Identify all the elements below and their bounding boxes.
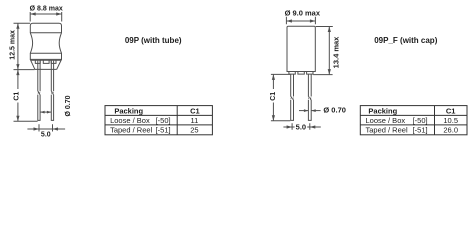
tube skirt diagonals [30, 59, 61, 69]
svg-text:09P_F (with cap): 09P_F (with cap) [374, 36, 437, 45]
C1 left text backing [13, 89, 20, 103]
dia 0.70 right fig right tail [311, 110, 320, 112]
dim line C1 left [17, 70, 19, 122]
dim text C1 left (rotated) [13, 92, 20, 101]
tab middle right fig [298, 72, 304, 75]
svg-text:Packing: Packing [368, 106, 397, 115]
svg-text:C1: C1 [13, 92, 20, 101]
label 09P_F (with cap) [374, 36, 437, 45]
svg-text:Packing: Packing [114, 106, 143, 115]
arrow C1 left bottom [16, 116, 19, 122]
extension tick top 12.5 [14, 22, 31, 24]
svg-text:5.0: 5.0 [41, 132, 51, 139]
svg-text:26.0: 26.0 [443, 125, 458, 134]
svg-text:C1: C1 [270, 92, 277, 101]
pin left right fig upper [291, 74, 294, 96]
dia 0.70 right fig left tail [299, 110, 308, 112]
dim text 5.0 left fig [41, 132, 51, 139]
dim line 12.5 max [17, 23, 19, 69]
pin right right fig upper [308, 74, 311, 96]
pin left right fig lower [291, 100, 294, 121]
dim line 5.0 right fig [283, 126, 320, 128]
arrow C1 right bottom [272, 115, 275, 121]
svg-text:11: 11 [191, 116, 199, 125]
arrow 5.0 right [53, 127, 59, 130]
label 09P (with tube) [125, 36, 182, 45]
dim text C1 right fig (rotated) [270, 92, 277, 101]
extension tick bottom C1 [14, 120, 38, 122]
extension tick top C1 right fig [271, 73, 290, 75]
pin right lower [51, 95, 53, 121]
svg-text:10.5: 10.5 [443, 116, 458, 125]
pin left upper [38, 61, 40, 92]
svg-text:Loose / Box: Loose / Box [366, 116, 406, 125]
svg-text:Ø 8.8 max: Ø 8.8 max [30, 6, 63, 13]
tab left [35, 60, 40, 63]
dim text 12.5 max (rotated) [9, 30, 16, 60]
svg-text:25: 25 [190, 125, 198, 134]
pin left right fig break [291, 97, 294, 100]
tab right [51, 60, 56, 63]
arrow 5.0 right fig right [310, 125, 316, 128]
table right borders [360, 106, 467, 135]
pin right upper [51, 61, 53, 92]
svg-text:[-51]: [-51] [156, 125, 171, 134]
arrow 13.4 bottom [328, 69, 331, 75]
arrow dia 8.8 left [30, 12, 36, 15]
arrow dia 8.8 right [56, 12, 62, 15]
dim text 5.0 right fig [296, 122, 306, 131]
coil body outline with tube [30, 23, 61, 59]
extension tick bottom 13.4 [313, 74, 332, 76]
arrow 12.5 bottom [16, 64, 19, 70]
pin right right fig lower [308, 100, 311, 121]
flange line bottom [30, 52, 61, 54]
skirt top line [31, 59, 62, 61]
table left borders [105, 106, 212, 135]
arrow 12.5 top [16, 23, 19, 29]
svg-text:Ø 9.0 max: Ø 9.0 max [285, 8, 321, 17]
svg-text:C1: C1 [190, 106, 200, 115]
C1 right text backing [270, 89, 277, 103]
arrow at right edge of right pin [311, 109, 315, 112]
svg-text:[-50]: [-50] [156, 116, 171, 125]
dim text dia 9.0 max [285, 8, 321, 17]
ticks 5.0 left fig [39, 124, 53, 131]
dim line 5.0 left fig [27, 128, 65, 130]
svg-text:[-51]: [-51] [413, 125, 428, 134]
cap body rectangle [287, 26, 315, 71]
svg-text:Taped / Reel: Taped / Reel [110, 125, 152, 134]
svg-text:C1: C1 [446, 106, 456, 115]
pin right break [51, 91, 53, 94]
dim line C1 right fig [272, 74, 274, 120]
svg-text:[-50]: [-50] [413, 116, 428, 125]
dim line dia 0.70 left fig [40, 111, 51, 113]
dim line dia 9.0 [286, 20, 315, 22]
5.0 right text backing [295, 124, 308, 131]
flange line top [30, 32, 61, 34]
arrow C1 left top [16, 70, 19, 76]
dim line 13.4 max [328, 27, 330, 75]
extension tick middle shared [14, 69, 35, 71]
tab middle [43, 60, 49, 63]
svg-text:Loose / Box: Loose / Box [110, 116, 150, 125]
dim text dia 0.70 left fig (rotated) [65, 95, 72, 116]
arrow at left edge of right pin [304, 109, 308, 112]
svg-text:Ø 0.70: Ø 0.70 [65, 95, 72, 116]
svg-text:Taped / Reel: Taped / Reel [366, 125, 408, 134]
svg-text:13.4 max: 13.4 max [332, 36, 341, 69]
arrow dia 9.0 left [286, 19, 292, 22]
arrow C1 right top [272, 74, 275, 80]
pin right right fig break [308, 97, 311, 100]
extension tick bottom C1 right fig [271, 120, 290, 122]
tab right right fig [307, 72, 313, 75]
skirt bottom line [35, 68, 57, 70]
svg-text:5.0: 5.0 [296, 122, 306, 131]
arrow 5.0 left [34, 127, 40, 130]
svg-text:12.5 max: 12.5 max [9, 30, 16, 60]
arrow 0.70 left [40, 111, 44, 114]
dim extension ticks dia 8.8 [30, 12, 62, 22]
ticks 5.0 right fig [292, 123, 310, 130]
tab left right fig [289, 72, 295, 75]
dim text dia 0.70 right fig [323, 106, 346, 115]
dim extension ticks dia 9.0 [286, 17, 315, 25]
dim text dia 8.8 max [30, 6, 63, 13]
pin left lower [38, 95, 40, 121]
svg-text:09P (with tube): 09P (with tube) [125, 36, 182, 45]
arrow 13.4 top [328, 27, 331, 33]
pin left break [38, 91, 40, 94]
arrow 5.0 right fig left [287, 125, 293, 128]
dim text 13.4 max (rotated) [332, 36, 341, 69]
svg-text:Ø 0.70: Ø 0.70 [323, 106, 346, 115]
dim line dia 8.8 [30, 13, 62, 15]
extension tick top 13.4 [316, 26, 333, 28]
arrow 0.70 right [47, 111, 51, 114]
arrow dia 9.0 right [310, 19, 316, 22]
